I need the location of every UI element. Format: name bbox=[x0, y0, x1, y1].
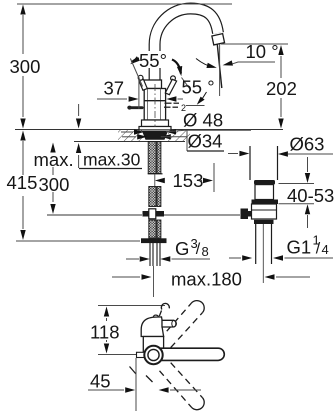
svg-text:max.30: max.30 bbox=[83, 150, 141, 170]
G3/8 nipple bbox=[150, 243, 160, 266]
threaded shank (knurl) bbox=[148, 142, 156, 174]
seal wedges under counter bbox=[142, 131, 168, 140]
dashed spout position steep (behind body) bbox=[161, 303, 169, 309]
right arc arrow + leader bbox=[172, 60, 181, 74]
flexible hose braid bbox=[149, 187, 156, 207]
extra dashes lower-left of ring bbox=[130, 367, 153, 383]
neck bbox=[255, 185, 274, 200]
svg-text:/: / bbox=[196, 241, 201, 258]
counter bottom line bbox=[74, 141, 185, 143]
svg-text:300: 300 bbox=[10, 56, 41, 77]
spout capsule (forward) bbox=[147, 348, 224, 360]
svg-text:118: 118 bbox=[90, 322, 120, 343]
dimension 300 vertical line bbox=[22, 15, 24, 117]
dimension max.300 bbox=[52, 167, 54, 202]
svg-text:4: 4 bbox=[322, 242, 329, 257]
10deg angle arrows at stream bbox=[196, 59, 214, 68]
svg-text:202: 202 bbox=[266, 78, 297, 99]
spout stub bbox=[162, 320, 176, 327]
svg-text:G: G bbox=[175, 238, 189, 259]
lower body bbox=[143, 337, 163, 354]
rod tab left bbox=[137, 352, 146, 357]
small flag marker bbox=[201, 92, 207, 102]
dimension 153 bbox=[155, 178, 165, 183]
40-53 dimension bbox=[279, 183, 315, 185]
body bbox=[144, 89, 165, 121]
flange ring bbox=[254, 180, 275, 185]
clamp dark band bbox=[252, 200, 279, 205]
max.30 annotation bbox=[78, 104, 80, 116]
dimension O34 bbox=[137, 134, 147, 139]
415 bottom ref line bbox=[16, 240, 140, 242]
clamp body bbox=[252, 204, 277, 219]
svg-text:8: 8 bbox=[202, 244, 209, 259]
svg-text:153: 153 bbox=[173, 170, 204, 191]
label 300 (top) bbox=[8, 55, 40, 75]
svg-text:45: 45 bbox=[90, 371, 111, 392]
top ref line bbox=[98, 305, 165, 307]
hose braid below rod bbox=[149, 220, 156, 238]
centerline bbox=[154, 84, 156, 127]
dimension 118 bbox=[104, 307, 109, 317]
mid ref line (spout axis) bbox=[98, 354, 145, 356]
tailpipe bbox=[255, 224, 257, 264]
G3/8 dimension bbox=[126, 258, 139, 260]
water stream bbox=[217, 45, 222, 89]
aerator at spout end bbox=[212, 34, 225, 45]
upper plug cylinder / O63 extension walls bbox=[249, 146, 251, 180]
svg-text:G1: G1 bbox=[287, 237, 312, 258]
spout outlet height ref line bbox=[221, 43, 288, 45]
top reference line over arch bbox=[17, 3, 232, 5]
svg-text:10 °: 10 ° bbox=[246, 41, 279, 62]
dimension 202 bbox=[280, 56, 282, 117]
counter top line bbox=[15, 129, 283, 131]
left arc arrow + leader bbox=[132, 59, 139, 63]
svg-text:max.: max. bbox=[34, 149, 74, 170]
svg-text:Ø63: Ø63 bbox=[290, 134, 325, 155]
gooseneck spout bbox=[155, 9, 218, 97]
locknut bbox=[254, 220, 274, 224]
rod fitting bbox=[143, 211, 149, 217]
body (side profile, top view) bbox=[141, 317, 163, 337]
body collar bbox=[144, 80, 162, 89]
svg-text:Ø 48: Ø 48 bbox=[183, 110, 223, 131]
svg-text:Ø34: Ø34 bbox=[188, 131, 223, 152]
hose nut bbox=[141, 238, 167, 243]
svg-text:415: 415 bbox=[7, 172, 38, 193]
svg-text:37: 37 bbox=[104, 78, 125, 99]
body base bbox=[142, 120, 169, 127]
left lever (vertical position) bbox=[138, 75, 143, 80]
O63 dimension bbox=[228, 153, 238, 155]
55deg #1 label bbox=[138, 51, 178, 68]
pop-up rod bbox=[47, 214, 142, 216]
counter hatch left / right bbox=[118, 130, 142, 141]
svg-text:300: 300 bbox=[39, 174, 70, 195]
svg-text:55 °: 55 ° bbox=[182, 77, 215, 98]
dashed spout position upper bbox=[160, 303, 203, 347]
stream vertical reference bbox=[219, 44, 221, 96]
dimension max.180 bbox=[112, 276, 140, 278]
level dashes bbox=[164, 103, 179, 107]
right lever (tilted position) bbox=[171, 76, 176, 81]
base ring bbox=[144, 346, 162, 364]
pop-up rod knob at body bbox=[128, 106, 144, 109]
centerline gap bbox=[154, 174, 156, 186]
dimension 415 bbox=[22, 141, 24, 229]
svg-text:max.180: max.180 bbox=[171, 269, 242, 290]
svg-text:/: / bbox=[316, 241, 321, 258]
svg-text:55°: 55° bbox=[139, 50, 167, 71]
knob bbox=[241, 209, 249, 220]
dashed spout position lower bbox=[160, 363, 203, 407]
svg-text:40-53: 40-53 bbox=[287, 185, 334, 206]
